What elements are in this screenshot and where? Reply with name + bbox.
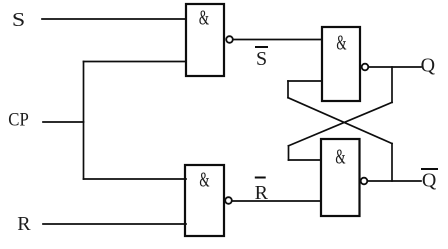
NAND gate U1 body — [186, 4, 224, 76]
wire node Q output — [369, 66, 422, 68]
svg-text:&: & — [335, 144, 345, 168]
svg-text:Q: Q — [422, 170, 437, 192]
overline of node S-bar label — [256, 46, 267, 48]
wire node S-bar from U1 to U2 — [233, 39, 322, 41]
NAND gate U4 body — [321, 139, 360, 216]
wire Q feedback vertical from output wire — [391, 67, 393, 102]
wire Qbar feedback vertical from U2 input — [287, 81, 289, 98]
overline of node Q-bar label — [422, 168, 437, 170]
wire Qbar feedback vertical to Qbar output wire — [391, 144, 393, 182]
svg-text:S: S — [256, 48, 267, 70]
wire U2 lower input horizontal — [288, 80, 322, 82]
NAND gate U3 output bubble — [225, 197, 232, 204]
svg-text:Q: Q — [421, 55, 436, 77]
wire Q feedback vertical to U4 input level — [288, 146, 290, 160]
svg-text:&: & — [199, 167, 209, 191]
NAND gate U3 body — [185, 165, 224, 236]
wire CP branch to gate U1 lower input — [84, 61, 187, 63]
wire Q feedback into U4 upper input — [289, 159, 322, 161]
NAND gate U2 body — [322, 27, 360, 101]
overline of node R-bar label — [256, 177, 265, 179]
svg-text:R: R — [255, 182, 269, 204]
wire node Qbar output — [368, 180, 422, 182]
svg-text:CP: CP — [8, 110, 29, 131]
wire R input — [43, 223, 186, 225]
NAND gate U1 output bubble — [226, 36, 233, 43]
NAND gate U4 output bubble — [361, 178, 368, 185]
svg-text:S: S — [12, 8, 25, 31]
wire CP branch to gate U3 upper input — [84, 178, 187, 180]
wire Qbar feedback diagonal — [288, 98, 392, 144]
svg-text:&: & — [199, 5, 209, 29]
NAND gate U2 output bubble — [362, 64, 369, 71]
wire Q feedback diagonal to U4 side — [289, 102, 393, 145]
svg-text:&: & — [336, 30, 346, 54]
wire S input — [42, 18, 186, 20]
svg-text:R: R — [17, 213, 31, 235]
wire CP input — [43, 121, 84, 123]
wire CP vertical trunk — [83, 62, 85, 180]
wire node R-bar from U3 to U4 — [232, 200, 321, 202]
